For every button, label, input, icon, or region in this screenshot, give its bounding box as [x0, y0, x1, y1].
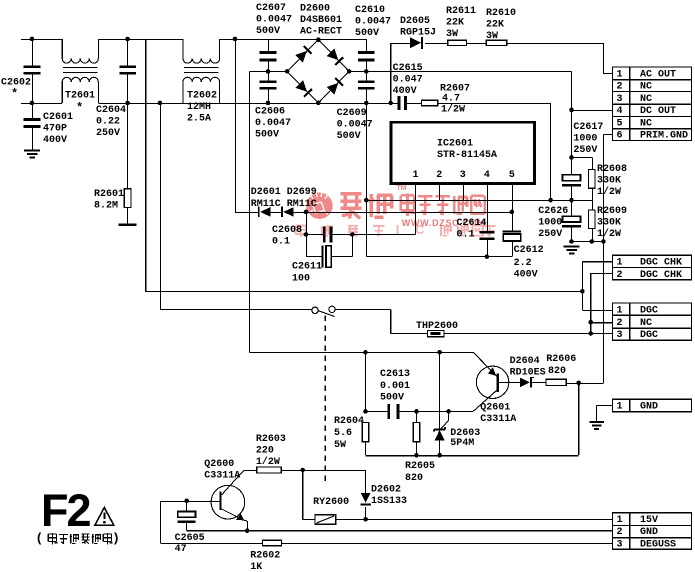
node junction DC OUT tap	[569, 108, 574, 113]
svg-text:C2614: C2614	[457, 218, 487, 229]
svg-text:22K: 22K	[446, 18, 464, 29]
watermark weiku characters	[341, 194, 393, 219]
svg-text:0.22: 0.22	[96, 117, 120, 128]
wire C2613 to collector	[398, 410, 473, 412]
svg-text:330K: 330K	[597, 176, 621, 187]
svg-text:D2605: D2605	[400, 16, 430, 27]
node junction R2605 bottom	[414, 453, 419, 458]
svg-text:R2604: R2604	[334, 416, 364, 427]
svg-text:T2601: T2601	[65, 91, 95, 102]
wire pin2 stub	[438, 183, 440, 200]
node junction DGC2 branch	[588, 320, 593, 325]
svg-text:F2: F2	[41, 485, 90, 536]
wire cap midpoint line	[366, 200, 592, 202]
wire to R2608 top	[572, 157, 593, 169]
bridge diode top-left	[295, 46, 312, 63]
label C2613 0.001 500V	[380, 369, 410, 404]
capacitor C2610	[358, 39, 375, 71]
svg-text:1: 1	[617, 402, 623, 413]
svg-text:6: 6	[617, 131, 623, 142]
label C2612 2.2 400V	[514, 245, 544, 281]
svg-text:3W: 3W	[446, 29, 458, 40]
connector CN1 AC OUT	[613, 67, 692, 142]
svg-text:C2610: C2610	[355, 5, 385, 16]
label C2610	[355, 5, 391, 39]
op-amp U1 IC2601 STR-81145A box	[391, 122, 535, 183]
capacitor C2615	[391, 96, 422, 110]
wire DC plus rail	[349, 71, 571, 174]
svg-text:500V: 500V	[355, 28, 379, 39]
svg-text:2: 2	[617, 527, 623, 538]
resistor R2609	[589, 200, 596, 241]
diode D2602 1SS133	[360, 470, 371, 519]
node bridge bottom vertex	[316, 101, 321, 106]
wire R2606 right	[566, 382, 603, 384]
svg-text:5: 5	[617, 118, 623, 129]
capacitor C2602	[24, 39, 41, 103]
svg-text:*: *	[76, 101, 83, 115]
capacitor C2604	[119, 39, 136, 103]
svg-text:R2609: R2609	[597, 206, 627, 217]
warning triangle	[95, 508, 114, 526]
resistor R2605 820	[413, 411, 420, 455]
svg-text:0.001: 0.001	[380, 381, 410, 392]
label R2606 820	[546, 354, 576, 377]
wire R2603 to relay line	[281, 470, 365, 472]
node junction gnd rail C2626	[569, 239, 574, 244]
svg-text:D2600: D2600	[300, 4, 330, 15]
resistor R2606 820	[546, 379, 566, 385]
svg-text:RM11C RM11C: RM11C RM11C	[251, 199, 317, 210]
label R2603 220 1/2W	[256, 434, 286, 468]
svg-text:1/2W: 1/2W	[441, 104, 465, 116]
svg-text:C2601: C2601	[43, 112, 73, 123]
node junction C2604/R2601	[125, 101, 130, 106]
node junction bottom bus D2605	[388, 101, 393, 106]
capacitor C2611 100	[321, 235, 352, 268]
svg-text:R2606: R2606	[546, 354, 576, 365]
svg-text:470P: 470P	[43, 124, 67, 135]
svg-text:8.2M: 8.2M	[94, 201, 118, 212]
node junction midline/R2607col	[548, 198, 553, 203]
svg-text:R2603: R2603	[256, 434, 286, 445]
capacitor C2607	[260, 39, 277, 71]
svg-text:C3311A: C3311A	[480, 414, 516, 425]
label C2604 0.22 250V	[96, 105, 126, 139]
svg-text:R2605: R2605	[405, 461, 435, 472]
node junction gnd rail R2609	[590, 239, 595, 244]
svg-text:DGC: DGC	[640, 305, 658, 316]
svg-text:D2601 D2699: D2601 D2699	[251, 187, 317, 198]
watermark TM	[397, 185, 407, 192]
svg-text:R2610: R2610	[486, 8, 516, 19]
svg-text:R2608: R2608	[597, 164, 627, 175]
svg-text:3: 3	[617, 540, 623, 551]
wire GND rail	[187, 530, 613, 532]
svg-text:500V: 500V	[337, 131, 361, 142]
node junction C2610/C2609 mid	[364, 69, 369, 74]
node bridge right vertex	[347, 69, 352, 74]
wire to pin4 DC OUT	[572, 109, 613, 111]
wire D2605 to R2611	[425, 42, 448, 44]
watermark slogan row	[296, 222, 496, 237]
svg-text:*: *	[11, 87, 18, 101]
label D2604 RD10ES	[510, 356, 546, 379]
svg-text:C2606: C2606	[255, 107, 285, 118]
label C2608 0.1	[272, 225, 302, 248]
connector CN4 GND	[613, 399, 692, 412]
label R2601 8.2M	[94, 189, 124, 212]
svg-text:R2601: R2601	[94, 189, 124, 200]
svg-text:15V: 15V	[640, 515, 658, 526]
resistor R2608	[589, 170, 596, 200]
resistor R2607 4.7 1/2W	[421, 100, 437, 105]
diode D2605 RGP15J	[410, 37, 423, 49]
svg-text:DC OUT: DC OUT	[640, 106, 676, 117]
svg-text:DEGUSS: DEGUSS	[640, 540, 676, 551]
capacitor C2601	[24, 103, 41, 149]
node junction C2608/C2611 right	[350, 232, 355, 237]
node junction gnd rail pin6 branch	[601, 239, 606, 244]
diode D2601 RM11C	[258, 207, 271, 218]
label C2606	[255, 107, 291, 141]
svg-text:C2613: C2613	[380, 369, 410, 380]
capacitor C2608	[306, 227, 352, 243]
wire pin4 stub	[486, 183, 488, 232]
wire AC neutral tap to switch	[160, 103, 312, 310]
svg-text:0.0047: 0.0047	[256, 15, 292, 26]
node junction top bus D2601 branch	[233, 37, 238, 42]
svg-text:R2602: R2602	[250, 551, 280, 562]
node junction D2603 branch	[446, 409, 451, 414]
node junction C2602 top	[30, 37, 35, 42]
node junction C2604 top	[125, 37, 130, 42]
svg-text:PRIM.GND: PRIM.GND	[640, 131, 688, 142]
node junction R2605 top	[414, 409, 419, 414]
label C2605 47	[175, 533, 205, 555]
node junction relay left branch	[300, 468, 305, 473]
node junction DGC3/THP line	[588, 331, 593, 336]
svg-text:AC OUT: AC OUT	[640, 69, 676, 80]
wire pin1 stub	[415, 183, 417, 234]
node junction R2606/divider bottom	[576, 381, 581, 386]
wire DCminus line to Q2601	[249, 351, 473, 354]
svg-text:5W: 5W	[334, 440, 346, 451]
svg-text:400V: 400V	[43, 135, 67, 146]
wire DC minus from bridge left	[249, 71, 287, 351]
watermark dzsc market characters	[401, 194, 485, 217]
svg-text:C2612: C2612	[514, 245, 544, 256]
node junction emitter line/D2603col	[437, 350, 442, 355]
bridge diode top-right	[327, 48, 344, 65]
capacitor C2612	[503, 230, 521, 256]
svg-text:1000: 1000	[538, 218, 562, 229]
label Q2601 C3311A	[480, 403, 516, 426]
svg-text:2: 2	[617, 270, 623, 281]
node junction R2608 tap	[569, 155, 574, 160]
relay dashed link	[324, 316, 326, 484]
svg-text:100: 100	[292, 274, 310, 285]
label R2609 330K 1/2W	[597, 206, 627, 240]
svg-text:5: 5	[509, 170, 515, 181]
node junction DGCCHK1/ACtap	[580, 289, 585, 294]
label C2617 1000 250V	[573, 122, 603, 156]
wire C2609 column down	[365, 103, 367, 257]
label D2603 5P4M	[450, 428, 480, 449]
node junction startup line	[364, 198, 369, 203]
node junction C2606 bottom	[266, 101, 271, 106]
wire PRIM.GND to R2606 node	[579, 242, 604, 384]
svg-text:IC2601: IC2601	[437, 139, 473, 150]
label THP2600	[416, 321, 458, 332]
wire primary ground rail	[572, 241, 604, 243]
capacitor C2614	[480, 231, 495, 257]
wire C2608 column	[306, 212, 323, 257]
wire DGC CHK pin1	[582, 262, 612, 311]
svg-text:2: 2	[617, 318, 623, 329]
svg-text:DGC CHK: DGC CHK	[640, 258, 682, 269]
transistor Q2600 C3311A	[211, 479, 248, 530]
label D2602 1SS133	[371, 485, 407, 508]
label R2608 330K 1/2W	[597, 164, 627, 198]
svg-text:5.6: 5.6	[334, 428, 352, 439]
label C2611 100	[292, 262, 322, 285]
svg-text:250V: 250V	[538, 229, 562, 240]
svg-text:(: (	[37, 530, 42, 545]
svg-text:C2609: C2609	[337, 108, 367, 119]
wire R2610 to AC OUT pin1	[507, 43, 613, 74]
connector CN3 DGC	[613, 303, 692, 341]
svg-text:4.7: 4.7	[442, 94, 460, 105]
ground below C2601	[24, 149, 40, 158]
wire pin5 stub	[511, 183, 513, 230]
wire bottom AC bus	[21, 103, 391, 105]
svg-text:4: 4	[484, 170, 490, 181]
wire THP2600 to DGC	[444, 333, 613, 335]
svg-text:1/2W: 1/2W	[256, 456, 280, 468]
svg-text:RY2600: RY2600	[313, 497, 349, 508]
svg-text:250V: 250V	[573, 145, 597, 156]
label Q2600 C3311A	[204, 459, 240, 482]
svg-text:0.0047: 0.0047	[255, 118, 291, 129]
label C2609	[337, 108, 373, 142]
svg-text:Q2600: Q2600	[204, 459, 234, 470]
label R2607 4.7 1/2W	[440, 84, 470, 116]
wire AC hot tap to DGC CHK	[145, 39, 582, 291]
svg-text:THP2600: THP2600	[416, 321, 458, 332]
svg-text:R2611: R2611	[446, 6, 476, 17]
svg-text:400V: 400V	[393, 86, 417, 97]
svg-text:0.0047: 0.0047	[337, 120, 373, 131]
svg-text:RGP15J: RGP15J	[400, 28, 436, 39]
wire under-IC bottom line	[366, 256, 512, 258]
capacitor C2626	[562, 200, 581, 241]
node junction C2602/C2601	[30, 101, 35, 106]
svg-text:1/2W: 1/2W	[597, 228, 621, 240]
svg-text:AC-RECT: AC-RECT	[300, 27, 342, 38]
node junction base/C2605	[184, 499, 189, 504]
svg-text:C2611: C2611	[292, 262, 322, 273]
transistor Q2601 C3311A	[473, 352, 509, 411]
svg-text:47: 47	[175, 544, 187, 555]
zener D2603 5P4M	[434, 352, 449, 455]
svg-text:1: 1	[617, 515, 623, 526]
label C2607	[256, 3, 292, 37]
label RY2600	[313, 497, 349, 508]
svg-text:D2604: D2604	[510, 356, 540, 367]
svg-text:250V: 250V	[96, 128, 120, 139]
svg-text:0.0047: 0.0047	[355, 17, 391, 28]
svg-text:C2605: C2605	[175, 533, 205, 544]
label R2605 820	[405, 461, 435, 484]
svg-text:22K: 22K	[486, 20, 504, 31]
label C2602	[1, 78, 31, 102]
svg-text:DGC CHK: DGC CHK	[640, 270, 682, 281]
bridge rectifier D2600 diamond	[287, 40, 349, 103]
label IC pin numbers	[413, 170, 515, 181]
label F2 title	[41, 485, 90, 536]
svg-text:12MH: 12MH	[187, 102, 211, 113]
thermistor THP2600	[428, 331, 445, 337]
label C2615 0.047 400V	[393, 63, 423, 97]
wire R2607 to cap midpoint	[438, 103, 551, 200]
svg-text:TM: TM	[397, 185, 407, 192]
wire R2603 left to collector	[236, 470, 257, 479]
relay RY2600	[315, 515, 336, 525]
wire DEGUSS rail left	[160, 543, 262, 545]
wire branch to D2601	[235, 39, 237, 212]
svg-text:2: 2	[436, 170, 442, 181]
wire Q2600 base	[160, 501, 219, 543]
wire C2613 line	[366, 352, 389, 411]
svg-text:NC: NC	[640, 82, 652, 93]
capacitor C2606	[260, 71, 277, 103]
svg-text:2.5A: 2.5A	[187, 114, 211, 125]
node junction bus/T2602 area	[158, 101, 163, 106]
svg-text:Q2601: Q2601	[480, 403, 510, 414]
node junction emitter/GND rail	[245, 528, 250, 533]
diode D2699 RM11C	[281, 207, 294, 218]
label D2605 RGP15J	[400, 16, 436, 39]
svg-text:NC: NC	[640, 94, 652, 105]
svg-text:D2602: D2602	[371, 485, 401, 496]
capacitor C2617	[562, 175, 581, 200]
svg-text:500V: 500V	[380, 393, 404, 404]
capacitor C2609	[358, 71, 375, 103]
node junction midline/C2617col	[569, 198, 574, 203]
wire C2608 to pin1	[352, 234, 415, 236]
svg-text:C2615: C2615	[393, 63, 423, 74]
label C2614 0.1	[457, 218, 487, 241]
svg-text:3: 3	[617, 94, 623, 105]
resistor R2602 1K	[262, 540, 281, 546]
label caption power input board	[37, 530, 118, 545]
svg-text:1: 1	[617, 305, 623, 316]
wire CN4 to ground	[597, 406, 613, 421]
label IC2601 STR-81145A	[437, 139, 497, 162]
resistor R2603 220 1/2W	[257, 467, 281, 473]
wire D2604 to R2606	[532, 381, 546, 383]
node junction diode row / pin5	[510, 210, 515, 215]
ground bar below R2601	[119, 224, 137, 227]
svg-text:820: 820	[548, 366, 566, 377]
wire top AC bus left segment	[21, 39, 366, 41]
svg-text:400V: 400V	[514, 270, 538, 281]
svg-text:1/2W: 1/2W	[597, 186, 621, 198]
svg-text:1000: 1000	[573, 134, 597, 145]
resistor R2604 5.6 5W	[362, 423, 369, 456]
ground symbol primary	[564, 246, 580, 255]
svg-text:0.1: 0.1	[457, 230, 475, 241]
svg-text:DGC: DGC	[640, 330, 658, 341]
wire relay left	[303, 470, 315, 520]
ground symbol CN4	[589, 421, 604, 430]
svg-text:C2604: C2604	[96, 105, 126, 116]
svg-text:500V: 500V	[255, 130, 279, 141]
wire pin3 stub	[462, 183, 464, 200]
svg-text:3W: 3W	[486, 31, 498, 42]
node junction D2602/15V	[363, 517, 368, 522]
wire switch to THP2600	[335, 309, 427, 333]
label R2611 22K 3W	[446, 6, 476, 40]
svg-text:1: 1	[617, 258, 623, 269]
node junction D2603 bottom	[437, 453, 442, 458]
svg-text:): )	[114, 530, 118, 545]
transformer T2602	[183, 39, 220, 103]
svg-text:C2608: C2608	[272, 225, 302, 236]
watermark logo circle	[306, 189, 332, 219]
svg-text:C2607: C2607	[256, 3, 286, 14]
svg-text:C3311A: C3311A	[204, 471, 240, 482]
node junction C2613 left/R2604 top	[363, 409, 368, 414]
node junction C2608 left	[304, 232, 309, 237]
wire diode row	[235, 211, 512, 213]
svg-text:820: 820	[405, 473, 423, 484]
resistor R2601	[124, 103, 131, 224]
svg-text:1: 1	[413, 170, 419, 181]
resistor R2610 22K 3W	[486, 40, 507, 45]
label R2604 5.6 5W	[334, 416, 364, 451]
wire 15V rail	[336, 518, 613, 520]
svg-text:5P4M: 5P4M	[450, 438, 474, 449]
svg-text:3: 3	[617, 330, 623, 341]
bridge diode bottom-right	[327, 78, 344, 95]
node bridge left vertex	[285, 69, 290, 74]
diode D2604 RD10ES	[520, 377, 534, 388]
wire block bottom rail	[366, 383, 579, 456]
capacitor C2613	[387, 404, 399, 419]
transformer T2601	[62, 39, 98, 103]
node junction C2607/C2606 mid	[266, 69, 271, 74]
svg-text:RD10ES: RD10ES	[510, 367, 546, 378]
watermark WWW.DZSC.COM	[402, 218, 486, 228]
label C2601 470P 400V	[43, 112, 73, 146]
capacitor C2605 47	[178, 501, 196, 531]
svg-text:500V: 500V	[256, 26, 280, 37]
label R2602 1K	[250, 551, 280, 572]
switch contact	[312, 306, 335, 316]
svg-text:GND: GND	[640, 527, 658, 538]
svg-text:1K: 1K	[250, 562, 262, 572]
svg-text:NC: NC	[640, 118, 652, 129]
label D2600 D4SB601 AC-RECT	[300, 4, 342, 38]
node bridge top vertex	[316, 37, 321, 42]
svg-text:4: 4	[617, 106, 623, 117]
wire D2605 branch up	[391, 43, 410, 103]
svg-text:C2617: C2617	[573, 122, 603, 133]
svg-text:0.1: 0.1	[272, 237, 290, 248]
svg-text:NC: NC	[640, 318, 652, 329]
